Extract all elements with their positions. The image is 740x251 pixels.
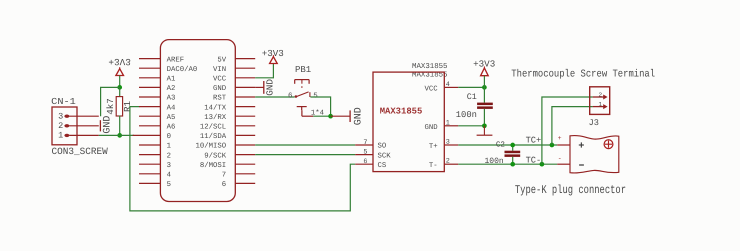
MAX31855 pin 1 GND (444, 125, 458, 127)
wire MCU VCC to +3V3 (255, 64, 273, 78)
svg-text:2: 2 (446, 158, 450, 166)
junction VCC / C1 (482, 85, 487, 90)
junction PB1 ground net (328, 114, 333, 119)
MCU right pin GND (235, 86, 255, 88)
wire MAX GND to C1/GND (458, 125, 484, 127)
MAX31855 pin 2 T- (444, 163, 458, 165)
svg-text:MAX31855: MAX31855 (380, 106, 423, 116)
svg-text:GND: GND (102, 116, 113, 134)
connector CN-1 CON3_SCREW body (52, 107, 77, 145)
MAX31855 pin 6 CS (355, 163, 373, 165)
svg-text:2: 2 (598, 92, 602, 99)
svg-text:Thermocouple Screw Terminal: Thermocouple Screw Terminal (511, 69, 655, 81)
plug connector body (wavy box) (570, 136, 619, 173)
MCU right pin 5V (235, 58, 255, 60)
MCU right pin 7 (235, 173, 255, 175)
capacitor C1 (483, 87, 485, 102)
svg-text:3: 3 (167, 162, 171, 170)
MCU left pin A3 (139, 96, 160, 98)
MCU left pin 1 (139, 144, 160, 146)
MCU left pin A2 (139, 86, 160, 88)
svg-text:1: 1 (446, 119, 450, 127)
junction R1 bottom (117, 133, 122, 138)
svg-text:1: 1 (58, 131, 63, 141)
wire +3V3 junction left then down to CN-1 pin 3 (101, 87, 120, 116)
svg-text:GND: GND (213, 85, 227, 93)
svg-text:VCC: VCC (425, 85, 439, 93)
plug - mark (579, 164, 584, 166)
svg-text:3: 3 (58, 111, 63, 121)
svg-text:PB1: PB1 (295, 65, 311, 75)
resistor R1 body (119, 87, 121, 97)
wire T+ net (458, 144, 557, 146)
svg-text:100n: 100n (484, 157, 503, 166)
wire MCU A4 down and across to MAX31855 CS (130, 107, 355, 211)
svg-text:3: 3 (446, 139, 450, 147)
wire 9/SCK to SCK (255, 154, 355, 156)
svg-text:13/RX: 13/RX (204, 113, 227, 122)
svg-text:A2: A2 (167, 85, 176, 93)
svg-text:MAX31855: MAX31855 (412, 63, 447, 71)
MCU right pin 14/TX (235, 106, 255, 108)
PB1 contact blade (295, 95, 298, 98)
svg-text:A4: A4 (167, 104, 176, 112)
wire +3V3 arrow to junction (119, 76, 121, 88)
MCU right pin 9/SCK (235, 154, 255, 156)
svg-text:14/TX: 14/TX (204, 103, 227, 112)
svg-text:VCC: VCC (213, 76, 227, 84)
wire T- up to J3 pin 2 (542, 97, 593, 164)
svg-text:2: 2 (167, 152, 171, 160)
wire MAX VCC to +3V3/C1 (458, 86, 484, 88)
svg-text:A6: A6 (167, 124, 176, 132)
svg-text:6: 6 (288, 92, 293, 101)
svg-text:T-: T- (429, 162, 438, 170)
svg-text:CN-1: CN-1 (51, 96, 76, 107)
MCU right pin 10/MISO (235, 144, 255, 146)
MCU right pin 12/SCL (235, 125, 255, 127)
svg-text:9/SCK: 9/SCK (204, 151, 227, 160)
svg-text:SO: SO (378, 143, 387, 151)
MAX31855 pin 5 SCK (355, 154, 373, 156)
svg-text:4k7: 4k7 (105, 98, 116, 115)
svg-text:RST: RST (213, 95, 227, 103)
power +3V3 (left, above R1) (108, 56, 131, 67)
MCU right pin VIN (235, 67, 255, 69)
svg-text:TC-: TC- (526, 155, 542, 165)
svg-text:-: - (558, 155, 562, 162)
svg-text:A3: A3 (167, 95, 176, 103)
terminal J3 body (590, 87, 610, 115)
wire MCU RST to PB1 (255, 96, 294, 98)
svg-text:5: 5 (167, 181, 171, 189)
svg-text:12/SCL: 12/SCL (200, 123, 226, 132)
MCU left pin 5 (139, 182, 160, 184)
svg-text:T+: T+ (429, 143, 438, 151)
svg-text:8/MOSI: 8/MOSI (200, 161, 226, 170)
svg-text:A1: A1 (167, 76, 176, 84)
MCU right pin 13/RX (235, 115, 255, 117)
MCU left pin 4 (139, 173, 160, 175)
MCU right pin VCC (235, 77, 255, 79)
MCU left pin 3 (139, 163, 160, 165)
wire T- net (458, 163, 557, 165)
svg-text:2: 2 (58, 121, 63, 131)
MCU left pin A4 (139, 106, 160, 108)
svg-text:DAC0/A0: DAC0/A0 (167, 65, 198, 74)
svg-text:7: 7 (363, 139, 367, 147)
capacitor C2 (512, 145, 514, 151)
junction GND / C1 (482, 123, 487, 128)
svg-text:A5: A5 (167, 114, 176, 122)
svg-text:+: + (558, 135, 562, 142)
svg-text:VIN: VIN (213, 66, 226, 74)
wire R1 bottom to pin1 net (119, 116, 121, 136)
PB1 second contact pair 1*4 (297, 106, 307, 108)
MAX31855 pin 3 T+ (444, 144, 458, 146)
svg-text:1: 1 (598, 101, 602, 108)
ground symbol GND (PB1) (331, 115, 350, 117)
wire T+ up to J3 pin 1 (552, 107, 593, 145)
svg-text:5: 5 (363, 148, 367, 156)
svg-text:GND: GND (425, 124, 439, 132)
svg-text:C2: C2 (496, 141, 506, 150)
svg-text:4: 4 (167, 172, 172, 180)
junction C2 bottom (510, 162, 515, 167)
svg-text:4: 4 (446, 81, 450, 89)
svg-text:Type-K plug connector: Type-K plug connector (515, 183, 626, 197)
MCU left pin AREF (139, 58, 160, 60)
MCU right pin RST (235, 96, 255, 98)
MCU right pin 8/MOSI (235, 163, 255, 165)
svg-text:CON3_SCREW: CON3_SCREW (52, 146, 109, 157)
svg-text:J3: J3 (589, 118, 599, 128)
MCU left pin A1 (139, 77, 160, 79)
svg-text:7: 7 (222, 172, 226, 180)
plug earth circle-plus (604, 140, 613, 149)
MCU left pin DAC0/A0 (139, 67, 160, 69)
MCU left pin A5 (139, 115, 160, 117)
svg-text:CS: CS (378, 162, 387, 170)
MCU left pin A6 (139, 125, 160, 127)
svg-text:TC+: TC+ (526, 136, 542, 146)
MCU U1 body (160, 40, 235, 202)
svg-text:11/SDA: 11/SDA (200, 132, 227, 141)
ground symbol GND (MCU) (255, 86, 263, 88)
wire PB1 pin5 to GND junction (310, 97, 330, 116)
svg-text:AREF: AREF (167, 56, 185, 64)
svg-text:SCK: SCK (378, 152, 392, 160)
J3 pin 2 screw arrow (593, 96, 604, 98)
svg-text:+3V3: +3V3 (108, 56, 131, 67)
svg-text:1: 1 (167, 143, 172, 151)
MCU right pin 6 (235, 182, 255, 184)
svg-text:6: 6 (363, 158, 367, 166)
plug + mark (579, 144, 584, 146)
svg-text:10/MISO: 10/MISO (196, 142, 227, 151)
svg-text:6: 6 (222, 181, 226, 189)
ground symbol (under C1) (483, 126, 485, 135)
svg-text:C1: C1 (467, 92, 477, 102)
J3 pin 1 screw arrow (593, 106, 604, 108)
junction T- to J3 (540, 162, 545, 167)
wire CN-1 pin1 to MCU pin 0 (99, 134, 134, 136)
MCU left pin 2 (139, 154, 160, 156)
ground symbol GND (CN-1 pin 2) (99, 120, 101, 131)
svg-text:100n: 100n (456, 110, 477, 120)
IC U2 MAX31855 body (373, 72, 444, 172)
svg-text:GND: GND (264, 79, 275, 96)
pushbutton PB1 actuator cap (295, 79, 309, 81)
MAX31855 pin 7 SO (355, 144, 373, 146)
svg-text:0: 0 (167, 133, 171, 141)
svg-text:GND: GND (353, 107, 364, 125)
svg-text:5V: 5V (217, 56, 226, 64)
MAX31855 pin 4 VCC (444, 86, 458, 88)
wire 10/MISO to SO (255, 144, 355, 146)
junction T+ to J3 (550, 143, 555, 148)
MCU left pin 0 (133, 134, 161, 136)
wire junction +3V3 / R1 top / CN-1 pin3 branch (117, 85, 122, 90)
junction C2 top (510, 143, 515, 148)
MCU right pin 11/SDA (235, 134, 255, 136)
